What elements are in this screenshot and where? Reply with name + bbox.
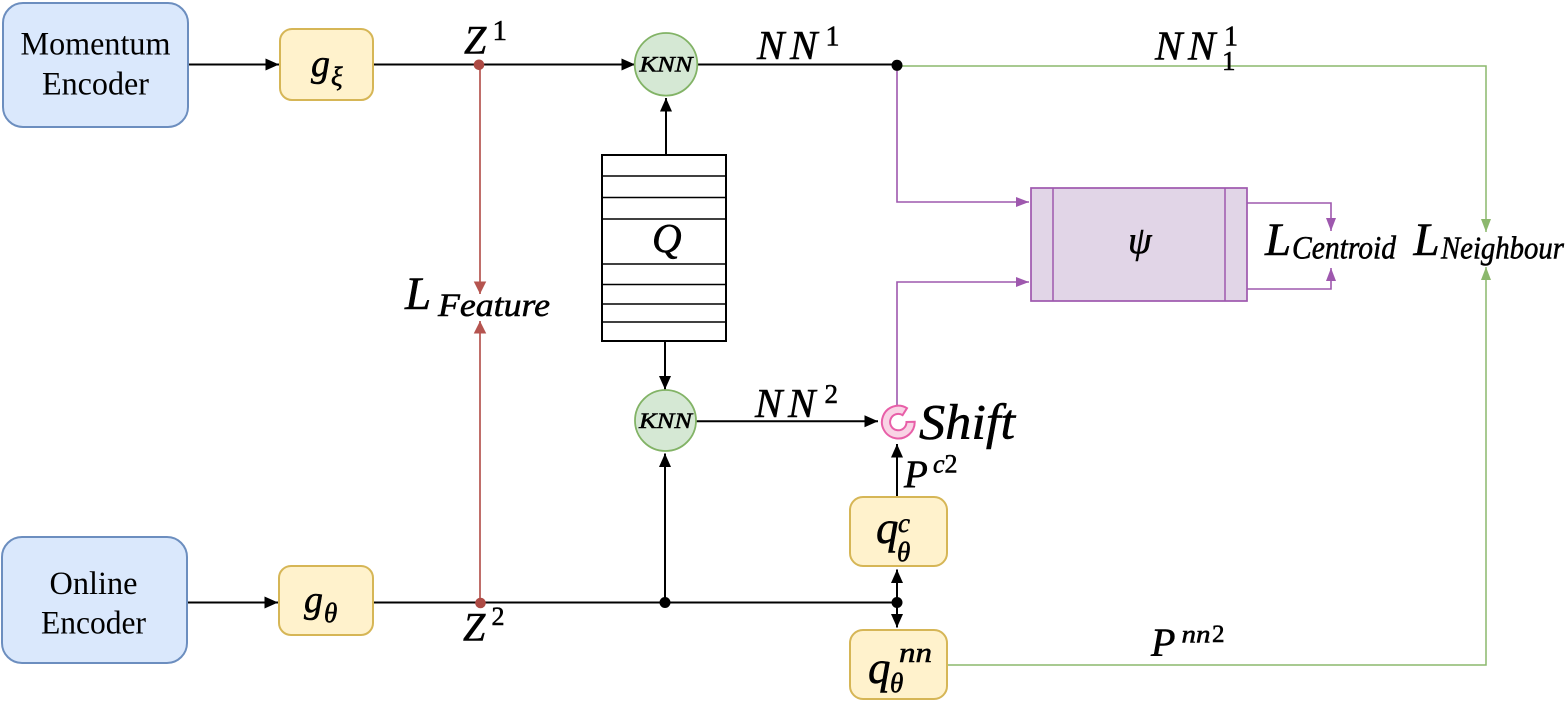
svg-text:Shift: Shift (919, 394, 1016, 450)
svg-text:L: L (1264, 214, 1291, 266)
svg-text:g: g (304, 579, 323, 621)
svg-text:Encoder: Encoder (42, 66, 149, 102)
svg-text:N: N (754, 380, 785, 426)
svg-text:ξ: ξ (331, 62, 343, 92)
svg-text:L: L (404, 268, 431, 320)
svg-text:Momentum: Momentum (21, 27, 171, 63)
svg-text:Neighbour: Neighbour (1440, 230, 1564, 266)
svg-text:2: 2 (1212, 621, 1225, 648)
svg-text:θ: θ (324, 598, 337, 628)
svg-text:nn: nn (899, 638, 932, 669)
svg-text:1: 1 (493, 15, 508, 47)
svg-text:N: N (756, 22, 787, 68)
svg-text:nn: nn (1182, 622, 1211, 649)
svg-text:Online: Online (50, 566, 138, 602)
svg-text:1: 1 (826, 22, 840, 53)
svg-text:c: c (933, 450, 945, 479)
svg-text:N: N (1187, 22, 1218, 68)
svg-text:2: 2 (492, 602, 505, 631)
svg-text:q: q (868, 643, 891, 693)
svg-text:Z: Z (464, 17, 487, 62)
svg-text:Feature: Feature (437, 288, 550, 324)
svg-text:ψ: ψ (1128, 220, 1153, 262)
svg-text:N: N (1154, 22, 1185, 68)
svg-text:g: g (311, 43, 330, 85)
svg-text:θ: θ (890, 668, 903, 698)
svg-text:q: q (876, 503, 899, 553)
svg-text:P: P (903, 453, 928, 496)
svg-text:N: N (789, 22, 820, 68)
svg-text:N: N (787, 380, 818, 426)
svg-text:2: 2 (825, 379, 839, 409)
svg-text:2: 2 (945, 450, 958, 479)
svg-text:Q: Q (652, 215, 682, 261)
svg-text:L: L (1413, 214, 1440, 266)
svg-text:KNN: KNN (638, 408, 694, 433)
svg-text:Centroid: Centroid (1292, 231, 1396, 267)
svg-text:P: P (1150, 620, 1175, 665)
svg-text:c: c (898, 508, 910, 538)
svg-text:θ: θ (897, 537, 910, 567)
svg-text:Z: Z (463, 605, 486, 650)
svg-text:1: 1 (1222, 46, 1236, 76)
svg-text:KNN: KNN (638, 52, 694, 77)
svg-text:Encoder: Encoder (41, 605, 146, 641)
